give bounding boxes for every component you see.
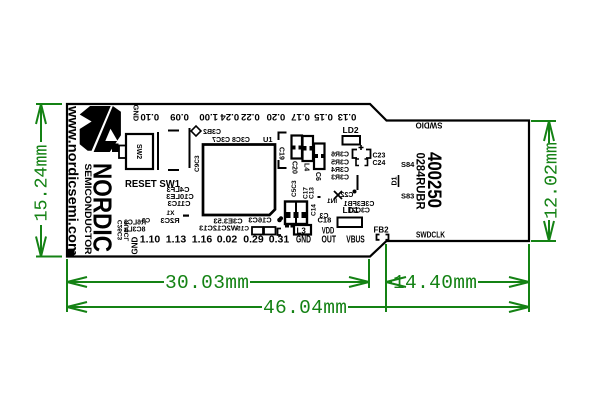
LED LD2: [343, 136, 361, 145]
labels above U1: [203, 129, 250, 144]
svg-text:C3B2: C3B2: [203, 129, 221, 136]
svg-text:FB2: FB2: [373, 226, 389, 235]
svg-text:C3R6: C3R6: [331, 152, 349, 159]
bracket pad: [278, 229, 282, 236]
svg-text:C20: C20: [291, 161, 298, 174]
L-block bottom pads: [285, 225, 289, 228]
top number row (rotated 180): [140, 111, 356, 122]
extension line x369: [368, 259, 370, 288]
svg-text:SW2: SW2: [135, 144, 142, 159]
svg-text:1.16: 1.16: [192, 234, 213, 246]
capacitor C19: [279, 133, 287, 169]
svg-text:D1: D1: [392, 176, 399, 185]
bottom number row: [140, 234, 365, 246]
svg-text:S84: S84: [401, 160, 415, 169]
svg-text:0.09: 0.09: [170, 111, 189, 122]
Nordic logo: [80, 106, 121, 152]
svg-text:VDD: VDD: [322, 226, 335, 236]
small boxes bottom center: [252, 227, 263, 235]
svg-text:VBUS: VBUS: [346, 234, 365, 246]
pad bottom-left: [68, 249, 75, 256]
svg-text:0.15: 0.15: [314, 111, 333, 122]
svg-text:C13: C13: [309, 187, 316, 199]
svg-text:8C3La: 8C3La: [124, 227, 145, 234]
svg-text:C16C3: C16C3: [248, 216, 271, 225]
X mark C22: [334, 191, 342, 199]
svg-text:C24: C24: [373, 160, 386, 167]
svg-text:C15: C15: [237, 226, 249, 233]
svg-text:LD2: LD2: [343, 125, 359, 135]
U1 pin1 dot: [279, 216, 283, 220]
svg-text:C14: C14: [311, 204, 318, 216]
extension line left bottom: [66, 259, 68, 312]
svg-text:14.40mm: 14.40mm: [393, 272, 477, 294]
SW2 pin tab: [119, 146, 126, 159]
wire segment x357: [357, 175, 359, 190]
svg-text:C3C8 C3C7: C3C8 C3C7: [212, 137, 250, 144]
svg-text:L3: L3: [297, 227, 307, 236]
svg-text:0.24: 0.24: [220, 111, 239, 122]
dimension 12.02mm line: [544, 121, 554, 241]
dimension 30.03mm line: [67, 277, 369, 287]
IC U1: [203, 145, 275, 216]
svg-text:C6: C6: [314, 172, 321, 181]
svg-text:C3R3: C3R3: [331, 175, 349, 182]
svg-text:1.00: 1.00: [199, 111, 218, 122]
svg-text:0.13: 0.13: [338, 111, 357, 122]
svg-text:C3R4: C3R4: [331, 167, 349, 174]
dimension 12.02mm extension tick top: [531, 120, 556, 122]
svg-text:C19: C19: [278, 147, 285, 160]
tick top SW1: [168, 130, 179, 132]
svg-text:C9C3: C9C3: [194, 155, 201, 172]
dimension 15.24mm line: [36, 104, 46, 257]
svg-text:1.10: 1.10: [140, 234, 161, 246]
inductor L3: [294, 225, 311, 235]
capacitor C6: [314, 144, 325, 170]
dimension 15.24mm extension tick top: [36, 103, 62, 105]
dimension 15.24mm extension tick bottom: [36, 256, 62, 258]
svg-text:www.nordicsemi.com: www.nordicsemi.com: [66, 105, 81, 256]
svg-text:0.10: 0.10: [140, 111, 159, 122]
switch SW2: [126, 134, 153, 169]
svg-text:C5C3: C5C3: [291, 180, 298, 197]
extension line x386: [385, 244, 387, 312]
svg-text:C3: C3: [141, 218, 150, 225]
svg-text:SWDCLK: SWDCLK: [416, 231, 445, 240]
svg-text:1.13: 1.13: [166, 234, 187, 246]
svg-text:C18: C18: [318, 216, 332, 225]
svg-text:15.24mm: 15.24mm: [32, 145, 53, 222]
svg-text:R2C3: R2C3: [160, 216, 179, 225]
dash mark left: [183, 215, 189, 217]
dimension 14.40mm line: [386, 277, 529, 287]
board outline: [67, 104, 529, 257]
diamond mark: [191, 126, 201, 136]
FB2 pads: [377, 235, 389, 240]
capacitor C20: [292, 136, 303, 159]
svg-text:12.02mm: 12.02mm: [542, 142, 563, 219]
wire segment x158: [157, 132, 159, 170]
svg-text:0284RUBR: 0284RUBR: [414, 153, 428, 210]
svg-text:0.22: 0.22: [241, 111, 260, 122]
svg-text:LD1: LD1: [343, 205, 359, 215]
svg-text:SWDIO: SWDIO: [416, 121, 443, 130]
svg-text:C22: C22: [340, 192, 353, 199]
dimension 46.04mm line: [67, 302, 529, 312]
svg-text:U1: U1: [263, 135, 273, 144]
svg-text:0.02: 0.02: [217, 234, 238, 246]
extension line right bottom: [528, 244, 530, 312]
svg-text:SEMICONDUCTOR: SEMICONDUCTOR: [83, 164, 93, 256]
svg-text:0.20: 0.20: [267, 111, 286, 122]
plus mark: [359, 145, 364, 150]
inductor L4: [303, 136, 314, 161]
svg-text:IN1: IN1: [327, 198, 338, 205]
svg-text:0.17: 0.17: [291, 111, 310, 122]
mirrored cluster under SW1: [160, 185, 271, 233]
capacitor C24: [356, 159, 368, 166]
wire segment x189: [189, 128, 191, 168]
svg-text:C11C3: C11C3: [168, 199, 191, 208]
capacitor C23: [353, 150, 371, 159]
svg-text:S83: S83: [401, 192, 414, 201]
svg-text:GND: GND: [131, 237, 140, 255]
svg-text:30.03mm: 30.03mm: [165, 272, 249, 294]
svg-text:46.04mm: 46.04mm: [263, 297, 347, 319]
tick bottom SW1: [168, 169, 179, 171]
svg-text:L4: L4: [303, 163, 310, 171]
dash mark: [318, 196, 321, 198]
svg-text:GND: GND: [132, 105, 141, 122]
inductor block L1/L2: [285, 202, 307, 225]
D1 line: [398, 175, 400, 187]
mirrored vertical cluster left: [117, 218, 150, 242]
svg-text:C23: C23: [373, 153, 386, 160]
node dot left: [277, 218, 282, 223]
dimension 12.02mm extension tick bottom: [531, 240, 556, 242]
LED LD1: [338, 218, 363, 228]
svg-text:C3E3.53: C3E3.53: [213, 217, 242, 226]
svg-text:C3R5: C3R5: [331, 160, 349, 167]
